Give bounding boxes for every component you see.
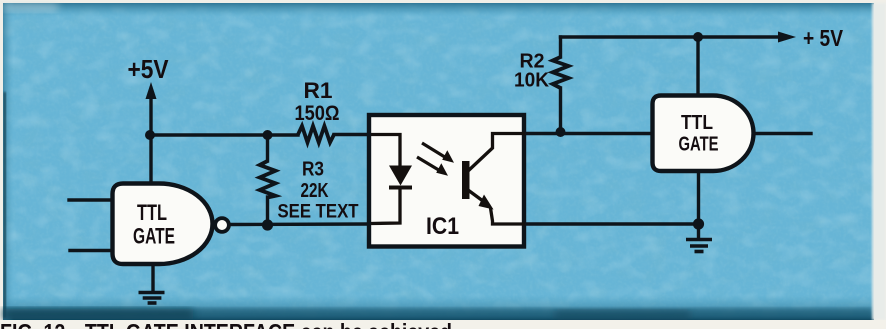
resistor R2 zigzag [553,57,569,88]
wire: IC1 to right gate rail [525,132,653,135]
resistor R3 zigzag [260,161,276,198]
wire: NAND input 2 [70,249,113,252]
resistor R1 zigzag [298,126,334,143]
left edge dark line [4,92,7,318]
svg-text:IC1: IC1 [426,213,459,240]
ground (right) [686,240,712,252]
junction node dots [145,130,155,140]
wire: R2 top lead [559,37,562,57]
svg-text:TTL: TTL [137,200,167,225]
darker bottom edge band [3,295,874,320]
bottom white strip [0,320,886,329]
optocoupler IC1 box [369,115,524,247]
wire: main top-left rail to R1 [149,133,298,136]
dark bottom band patches [3,308,872,319]
wire: IC1 emitter rail to ground junction [525,222,699,225]
wire: R2 bottom lead [559,88,562,134]
NAND gate U1 body [113,184,213,265]
svg-text:R1: R1 [304,78,333,103]
AND gate (right) body [653,96,754,172]
svg-text:GATE: GATE [679,134,719,156]
LED inside IC1 [371,135,412,224]
arrow up (+5V left) [146,82,157,99]
svg-text:150Ω: 150Ω [295,102,340,125]
wire: right gate top power drop [696,37,699,95]
darker top edge band [3,3,874,17]
darker left edge band [3,3,14,320]
wire: NAND input 1 [69,198,113,201]
svg-text:R3: R3 [302,159,324,181]
svg-text:GATE: GATE [133,224,175,249]
wire: left gate ground stem [151,263,154,291]
NAND output bubble [215,218,229,232]
svg-text:SEE TEXT: SEE TEXT [278,202,359,223]
right pale margin [872,3,886,320]
wire: R3 top lead [266,135,269,161]
svg-text:+5V: +5V [128,54,170,84]
svg-text:FIG. 12—TTL GATE INTERFACE can: FIG. 12—TTL GATE INTERFACE can be achiev… [0,319,452,329]
wire: R1 right lead to IC1 [334,133,369,136]
wire: R3 bottom lead [266,197,269,225]
wire: right gate output [753,132,811,135]
wire: right gate ground stem [697,170,700,238]
svg-text:+ 5V: + 5V [803,25,844,51]
svg-text:22K: 22K [301,180,329,202]
top-left pale corner [3,3,58,11]
svg-text:TTL: TTL [681,112,713,134]
ground (left) [139,293,165,304]
phototransistor Q inside IC1 [462,161,470,199]
wire: top-right +5V rail [561,35,782,38]
wire: NAND output to IC1 [229,222,369,226]
arrow right (+5V right) [778,32,796,43]
wire: left +5V vertical rail [149,96,152,183]
light arrows [417,143,448,172]
svg-text:10K: 10K [514,70,550,92]
